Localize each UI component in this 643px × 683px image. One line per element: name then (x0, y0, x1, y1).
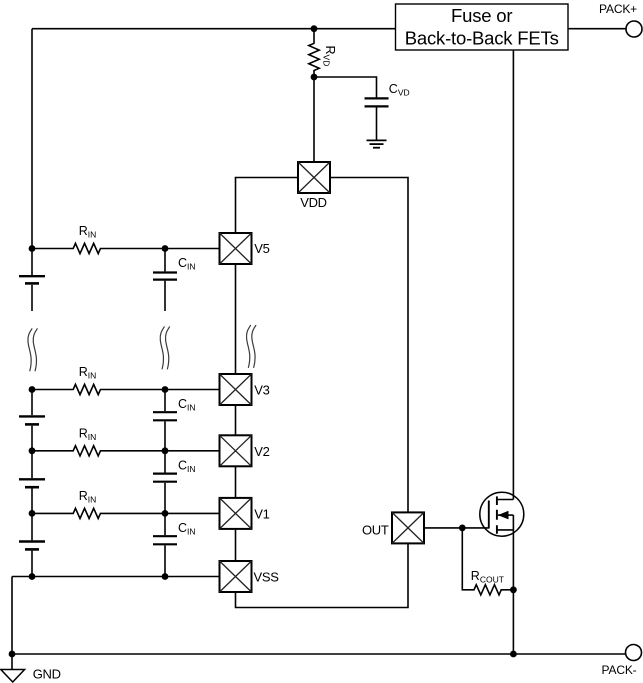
node V3 row battery column (29, 386, 36, 393)
pin V5 (220, 233, 252, 264)
block U1 fuse / back-to-back FETs (396, 4, 569, 50)
node V2 row CIN column (162, 447, 169, 454)
pin V2 (220, 435, 252, 466)
wire RVD junction to VDD pin (313, 77, 315, 162)
wire fuse to PACK+ (568, 28, 626, 30)
svg-text:VDD: VDD (300, 195, 327, 210)
wire V1 to VSS (235, 529, 237, 561)
ground GND (11, 654, 13, 669)
node VSS row CIN column (162, 573, 169, 580)
svg-text:OUT: OUT (362, 523, 389, 538)
pin VDD (298, 162, 330, 193)
node GND junction (9, 651, 16, 658)
svg-text:Fuse or: Fuse or (451, 5, 512, 26)
wire top rail (32, 28, 396, 30)
node Q1 source at bottom rail (510, 651, 517, 658)
battery cell B4 (19, 513, 45, 576)
pin V3 (220, 374, 252, 405)
resistor RVD (309, 29, 319, 77)
wire bottom rail PACK- (12, 653, 626, 655)
node OUT-RCOUT junction (459, 525, 466, 532)
capacitor CIN (V3 row) (153, 390, 177, 451)
terminal PACK- (626, 645, 642, 661)
node junction above RVD (311, 25, 318, 32)
break mark pin column (247, 325, 256, 367)
pin OUT (392, 512, 424, 543)
battery cell B3 (19, 451, 45, 514)
svg-text:V2: V2 (254, 444, 269, 459)
wire V3 to V2 (235, 405, 237, 435)
node V1 row battery column (29, 510, 36, 517)
wire left rail (31, 29, 33, 249)
wire VSS row (12, 576, 220, 578)
wire Q1 source to bottom rail (512, 515, 514, 654)
ground (CVD) (367, 140, 387, 147)
wire V5 to V3 (235, 264, 237, 374)
node VSS row battery column (29, 573, 36, 580)
node RCOUT-source junction (510, 586, 517, 593)
wire fuse to Q1 drain (512, 50, 514, 500)
wire VSS pin to OUT pin (236, 544, 409, 608)
node below RVD (311, 74, 318, 81)
wire V2 to V1 (235, 466, 237, 498)
terminal PACK+ (626, 21, 642, 37)
wire VSS row to bottom rail (11, 577, 13, 655)
break mark CIN column (160, 327, 169, 369)
transistor Q1 (NMOS) (480, 492, 524, 536)
node V3 row CIN column (162, 386, 169, 393)
node V2 row battery column (29, 447, 36, 454)
pin VSS (220, 561, 252, 592)
svg-text:V1: V1 (254, 507, 269, 522)
resistor RCOUT (462, 528, 513, 595)
capacitor CIN (V5 row) (153, 249, 177, 312)
resistor RIN (V5 row) (32, 243, 220, 253)
svg-text:PACK-: PACK- (602, 663, 637, 677)
svg-text:V5: V5 (254, 241, 269, 256)
svg-text:Back-to-Back FETs: Back-to-Back FETs (405, 27, 559, 48)
svg-text:PACK+: PACK+ (599, 2, 637, 16)
capacitor CIN (V2 row) (153, 451, 177, 514)
svg-text:VSS: VSS (254, 570, 280, 585)
node V5 row CIN column (162, 245, 169, 252)
wire VDD to V5 pin (236, 178, 299, 234)
capacitor CVD (365, 98, 389, 106)
resistor RIN (V3 row) (32, 384, 220, 394)
pin V1 (220, 498, 252, 529)
node V5 row battery column (29, 245, 36, 252)
wire RVD junction to CVD (314, 77, 377, 97)
wire OUT to Q1 gate (424, 527, 489, 529)
capacitor CIN (V1 row) (153, 513, 177, 576)
svg-text:GND: GND (33, 666, 61, 681)
break mark battery column (28, 329, 37, 371)
battery cell B2 (19, 390, 45, 451)
resistor RIN (V1 row) (32, 508, 220, 518)
wire VDD to OUT pin (330, 178, 408, 513)
svg-text:V3: V3 (254, 383, 269, 398)
battery cell B1 (19, 249, 45, 312)
resistor RIN (V2 row) (32, 446, 220, 456)
node V1 row CIN column (162, 510, 169, 517)
